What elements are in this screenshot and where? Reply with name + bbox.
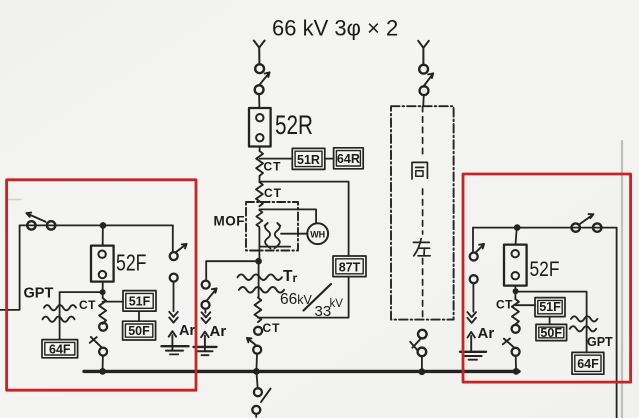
- wire to 51F: [103, 301, 123, 303]
- wire GPT tap right: [516, 292, 587, 316]
- wire top: [20, 224, 173, 226]
- wire feeder exit right: [616, 228, 618, 418]
- wire: [259, 147, 261, 152]
- relay 50F left: [123, 321, 156, 340]
- wire coil to meter: [281, 233, 307, 235]
- wire: [258, 94, 260, 108]
- wire: [259, 176, 261, 182]
- arrester branch Tr side: [205, 261, 207, 280]
- breaker 52R: [249, 108, 271, 147]
- wire: [514, 286, 516, 299]
- node junction top left: [100, 222, 107, 229]
- arrester branch left feeder: [172, 225, 174, 252]
- svg-text:50F: 50F: [540, 326, 562, 340]
- node bus left feeder: [99, 368, 106, 375]
- disconnector DS4: [27, 221, 35, 229]
- disconnector DS7 below bank box: [418, 330, 427, 339]
- relay 87T: [333, 256, 366, 277]
- node bus transformer: [253, 368, 260, 375]
- svg-text:51F: 51F: [129, 294, 151, 308]
- svg-text:GPT: GPT: [587, 335, 613, 349]
- svg-text:87T: 87T: [339, 260, 361, 274]
- relay 51F left: [123, 291, 156, 312]
- svg-text:51F: 51F: [539, 300, 561, 314]
- wire GPT tap: [60, 292, 103, 304]
- incoming line L2 arrow Y: [418, 41, 429, 65]
- wire MOF bottom tie: [259, 246, 290, 248]
- disconnector DS6 blade: [424, 73, 433, 86]
- svg-text:GPT: GPT: [24, 286, 54, 302]
- svg-text:64R: 64R: [337, 152, 360, 166]
- disconnector DS1 blade: [259, 72, 269, 85]
- kanji same (dou): [412, 162, 427, 179]
- label GPT: [24, 286, 54, 302]
- disconnector DS2 below transformer: [254, 327, 262, 335]
- wire: [102, 225, 104, 245]
- relay 64F right: [572, 352, 604, 374]
- MOF coil b: [275, 223, 280, 246]
- wire to bus: [515, 356, 517, 368]
- disconnector DS5 lower left: [99, 323, 107, 331]
- svg-text:50F: 50F: [128, 324, 150, 338]
- label 52F: [116, 250, 147, 276]
- disconnector DS9 lower right: [512, 325, 520, 333]
- wire: [325, 158, 334, 160]
- svg-text:Ar: Ar: [478, 325, 495, 342]
- breaker 52F right: [504, 245, 527, 286]
- node junction below 52F right: [513, 288, 519, 294]
- relay 51R: [292, 148, 325, 169]
- wire top: [473, 227, 617, 229]
- wire to 51F right: [515, 304, 535, 306]
- arrester Ar gap arrows left: [169, 312, 178, 323]
- wire to bus: [421, 356, 423, 368]
- wire main column: [258, 228, 261, 298]
- ground: [194, 346, 217, 348]
- faint smudge: [8, 199, 21, 201]
- svg-text:WH: WH: [310, 229, 325, 239]
- disconnector DS6 upper contact: [419, 65, 428, 74]
- svg-text:66 kV 3φ × 2: 66 kV 3φ × 2: [272, 16, 398, 41]
- CT 2: [256, 182, 263, 206]
- svg-text:CT: CT: [264, 186, 282, 200]
- disconnector DS3 below bus: [256, 371, 257, 388]
- relay 51F right: [535, 298, 565, 317]
- node junction below 52F: [100, 289, 106, 295]
- svg-text:CT: CT: [79, 298, 96, 312]
- MOF primary zigzag: [256, 210, 262, 227]
- wire: [586, 318, 588, 352]
- disconnector DS1 upper contact: [255, 64, 264, 73]
- svg-text:kV: kV: [330, 298, 344, 310]
- svg-text:52F: 52F: [530, 258, 560, 281]
- transformer Tr primary winding: [238, 274, 282, 280]
- disconnector DS6 lower contact: [420, 86, 429, 95]
- wire: [549, 317, 551, 325]
- bus bar: [84, 370, 519, 373]
- node bus second bank: [419, 368, 426, 375]
- ground left: [162, 345, 189, 347]
- enclosure same-as-left bank: [391, 106, 454, 319]
- wire to 51R: [260, 158, 292, 160]
- kanji left (sa): [413, 239, 430, 256]
- node junction at MOF bottom: [255, 258, 262, 265]
- arrester Ar gap arrows: [202, 312, 211, 323]
- disconnector DS1 lower contact: [255, 85, 264, 94]
- CT right: [512, 299, 519, 324]
- highlight box left: [7, 180, 196, 390]
- ground right: [460, 351, 486, 353]
- page edge line: [621, 141, 623, 418]
- wire: [256, 354, 259, 368]
- GPT winding upper: [44, 305, 76, 310]
- label GPT right: [587, 335, 613, 349]
- wire secondary to 87T: [258, 277, 349, 318]
- wire: [59, 304, 61, 339]
- disconnector DS8: [572, 223, 580, 231]
- breaker 52F left: [91, 246, 114, 282]
- svg-text:Tr: Tr: [283, 268, 297, 285]
- MOF enclosure: [246, 202, 298, 251]
- svg-text:52R: 52R: [275, 110, 313, 140]
- title 66 kV 3phi x2: [272, 16, 398, 41]
- highlight box right: [463, 174, 631, 382]
- wire feeder exit left: [0, 225, 20, 310]
- label 52F right: [530, 258, 560, 281]
- relay 64F left: [42, 340, 78, 358]
- node junction top right: [514, 224, 521, 231]
- node bus right feeder: [513, 368, 520, 375]
- label 66kV/33kV: [280, 291, 313, 308]
- CT 1: [256, 151, 263, 176]
- incoming line L1 arrow Y: [254, 41, 265, 65]
- svg-text:64F: 64F: [577, 357, 599, 371]
- svg-text:64F: 64F: [49, 343, 71, 357]
- GPT winding lower right: [570, 326, 596, 331]
- GPT winding upper right: [571, 316, 597, 321]
- wire tap to 87T: [259, 182, 348, 256]
- wire dashed center: [422, 106, 424, 319]
- arrester branch right feeder: [472, 228, 474, 253]
- svg-text:CT: CT: [263, 321, 281, 335]
- svg-text:MOF: MOF: [214, 214, 246, 229]
- svg-text:52F: 52F: [116, 250, 147, 276]
- wire: [102, 323, 104, 325]
- wire: [138, 311, 140, 321]
- CT 3: [254, 298, 261, 323]
- wire: [516, 228, 517, 245]
- svg-text:Ar: Ar: [210, 323, 227, 340]
- label 52R: [275, 110, 313, 140]
- relay 64R: [334, 148, 364, 169]
- transformer Tr secondary winding: [239, 287, 284, 293]
- CT left: [99, 298, 106, 323]
- relay 50F right: [536, 324, 567, 340]
- svg-text:51R: 51R: [297, 153, 320, 167]
- svg-text:Ar: Ar: [179, 323, 195, 339]
- wire to bus: [102, 356, 104, 368]
- GPT winding lower: [43, 317, 75, 322]
- meter WH: [307, 223, 328, 244]
- wire MOF potential: [259, 209, 316, 223]
- wire: [422, 95, 425, 106]
- svg-text:CT: CT: [496, 298, 513, 312]
- wire: [102, 282, 104, 298]
- label Tr: [283, 268, 297, 285]
- MOF coil a: [265, 223, 270, 246]
- wire to arrester branch: [206, 260, 258, 262]
- arrester Ar gap arrows right: [467, 312, 476, 323]
- svg-text:CT: CT: [264, 160, 282, 174]
